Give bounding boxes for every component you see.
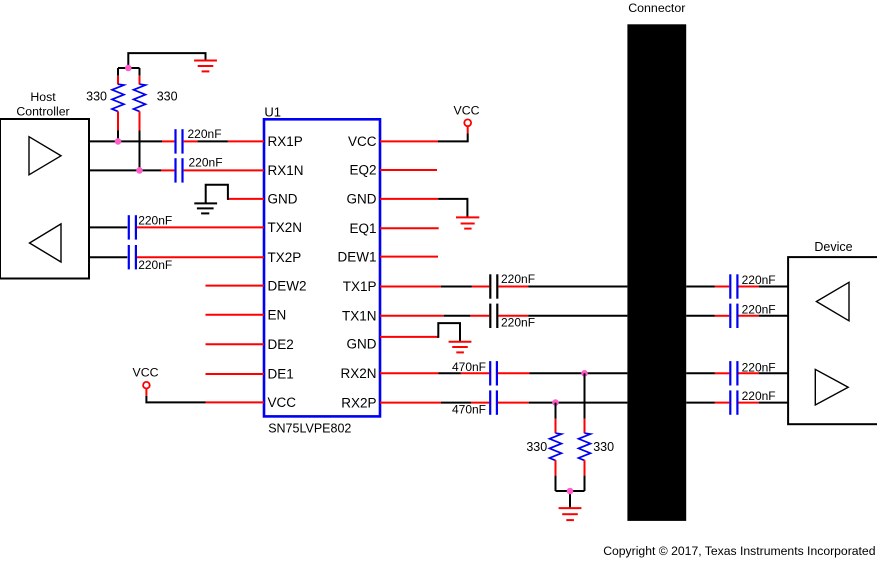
- wire TX1P: C5 to connector: [498, 286, 528, 288]
- svg-text:GND: GND: [347, 337, 377, 352]
- U1 right pin labels: [337, 134, 376, 410]
- svg-text:TX1N: TX1N: [342, 309, 377, 324]
- resistor R1 330 (upper left): [86, 68, 124, 141]
- wire VCC right pin: [380, 140, 438, 142]
- svg-text:RX1N: RX1N: [268, 163, 304, 178]
- svg-text:SN75LVPE802: SN75LVPE802: [268, 421, 351, 435]
- svg-text:RX1P: RX1P: [268, 134, 303, 149]
- svg-text:EQ1: EQ1: [349, 221, 376, 236]
- wire EQ1 stub: [380, 227, 439, 229]
- wire: R1/R2 top bar: [118, 67, 140, 69]
- wire TX2P: host to C4: [89, 256, 127, 258]
- wire RX2P: U1 to C8: [380, 402, 441, 404]
- wire RX2N: C11 to device: [739, 372, 759, 374]
- node: junction dot bottom: [567, 488, 574, 495]
- Connector (black bar): [627, 1, 686, 521]
- ground (right of U1 bottom, red): [449, 342, 472, 353]
- host buffer triangle (left-pointing): [30, 224, 62, 262]
- svg-text:DE1: DE1: [268, 367, 294, 382]
- svg-text:220nF: 220nF: [138, 213, 172, 227]
- svg-text:RX2N: RX2N: [340, 366, 376, 381]
- svg-text:VCC: VCC: [133, 366, 159, 380]
- svg-text:Copyright © 2017, Texas Instru: Copyright © 2017, Texas Instruments Inco…: [603, 544, 875, 558]
- wire RX2N: connector to C11: [686, 372, 715, 374]
- device buffer triangle (right-pointing): [815, 369, 848, 405]
- svg-text:Device: Device: [814, 240, 852, 254]
- svg-text:VCC: VCC: [454, 104, 480, 118]
- node: junction dot RX1P: [115, 138, 122, 145]
- ground (left of U1, black): [194, 203, 217, 213]
- wire EN stub: [206, 314, 265, 316]
- wire GND right pin 2 with step: [380, 336, 438, 338]
- svg-text:470nF: 470nF: [452, 402, 486, 416]
- wire: bottom node to ground: [569, 491, 571, 508]
- svg-text:TX2N: TX2N: [268, 220, 303, 235]
- svg-text:TX2P: TX2P: [268, 250, 302, 265]
- ground (top left, red): [194, 61, 217, 72]
- node: junction dot RX2P: [552, 399, 559, 406]
- svg-text:330: 330: [86, 90, 107, 104]
- svg-text:220nF: 220nF: [188, 127, 222, 141]
- capacitor C11 220nF: [730, 361, 775, 386]
- wire TX1P: C9 to device: [739, 286, 759, 288]
- svg-text:330: 330: [593, 440, 614, 454]
- wire: R3/R4 bottom bar: [556, 490, 585, 492]
- ground (bottom, red): [559, 508, 582, 520]
- capacitor C10 220nF: [730, 303, 775, 328]
- capacitor C12 220nF: [730, 389, 775, 415]
- capacitor C3 220nF: [129, 213, 172, 239]
- svg-text:220nF: 220nF: [742, 389, 776, 403]
- wire TX2N: host to C3: [89, 226, 127, 228]
- U1 left pin labels: [268, 134, 307, 410]
- wire DE1 stub: [206, 373, 265, 375]
- svg-text:DEW1: DEW1: [337, 249, 376, 264]
- svg-text:RX2P: RX2P: [341, 395, 376, 410]
- capacitor C7 470nF: [452, 360, 497, 386]
- Device box: [788, 240, 877, 424]
- wire TX1N: C10 to device: [739, 315, 759, 317]
- capacitor C1 220nF: [176, 127, 222, 154]
- svg-text:GND: GND: [268, 192, 298, 207]
- svg-text:TX1P: TX1P: [343, 279, 377, 294]
- svg-text:470nF: 470nF: [452, 360, 486, 374]
- wire GND left pin with step: [228, 198, 264, 200]
- wire TX1N: connector to C10: [686, 315, 715, 317]
- wire RX1P: C1 lead: [162, 140, 174, 142]
- resistor R4 330 (bottom right): [579, 373, 615, 491]
- device buffer triangle (left-pointing): [816, 282, 849, 321]
- node: junction dot top: [125, 65, 132, 72]
- node: junction dot RX1N: [136, 167, 143, 174]
- svg-text:DE2: DE2: [268, 337, 294, 352]
- power VCC (left bottom): [133, 366, 206, 403]
- svg-text:330: 330: [526, 440, 547, 454]
- svg-text:GND: GND: [347, 192, 377, 207]
- svg-text:DEW2: DEW2: [268, 278, 307, 293]
- wire DE2 stub: [206, 343, 265, 345]
- Host Controller box: [0, 90, 89, 279]
- wire RX2P: C12 to device: [739, 402, 759, 404]
- svg-text:U1: U1: [264, 105, 281, 120]
- svg-text:220nF: 220nF: [138, 258, 172, 272]
- svg-text:220nF: 220nF: [501, 272, 535, 286]
- node: junction dot RX2N: [581, 370, 588, 377]
- wire RX2P: connector to C12: [686, 402, 715, 404]
- op-amp U1 SN75LVPE802 box: [264, 105, 380, 436]
- svg-text:220nF: 220nF: [742, 273, 776, 287]
- power VCC (right top): [438, 104, 480, 142]
- capacitor C8 470nF: [452, 390, 497, 416]
- wire RX1N: host to C2: [89, 169, 161, 171]
- svg-text:EN: EN: [268, 307, 287, 322]
- wire EQ2 stub: [380, 169, 437, 171]
- wire RX1P: host to C1: [89, 140, 162, 142]
- wire: top node to ground: [128, 53, 205, 68]
- svg-text:220nF: 220nF: [501, 315, 535, 329]
- capacitor C9 220nF: [730, 273, 775, 299]
- capacitor C2 220nF: [176, 156, 223, 183]
- svg-text:Controller: Controller: [16, 105, 69, 119]
- wire TX2N: C3 to U1: [137, 226, 264, 228]
- capacitor C6 220nF (black): [490, 304, 535, 330]
- wire RX1N: C2 to U1: [184, 169, 264, 171]
- svg-text:220nF: 220nF: [742, 303, 776, 317]
- svg-text:Connector: Connector: [628, 1, 685, 15]
- wire TX1N: C6 to connector: [498, 315, 528, 317]
- svg-text:EQ2: EQ2: [349, 163, 376, 178]
- wire TX2P: C4 to U1: [137, 256, 264, 258]
- capacitor C4 220nF: [129, 245, 172, 272]
- host buffer triangle (right-pointing): [29, 137, 61, 175]
- ground (right of U1 top, red): [456, 217, 479, 228]
- capacitor C5 220nF (black): [490, 272, 535, 299]
- wire TX1P: U1 to C5: [380, 286, 441, 288]
- svg-text:VCC: VCC: [348, 134, 377, 149]
- svg-text:Host: Host: [30, 90, 56, 104]
- wire DEW2 stub: [206, 285, 265, 287]
- wire DEW1 stub: [380, 256, 438, 258]
- wire TX1N: U1 to C6: [380, 315, 444, 317]
- wire GND right pin: [380, 198, 438, 200]
- wire TX1P: connector to C9: [686, 286, 715, 288]
- svg-text:VCC: VCC: [268, 395, 297, 410]
- resistor R2 330 (upper right): [134, 68, 178, 170]
- wire VCC left pin: [206, 401, 265, 403]
- svg-text:220nF: 220nF: [189, 156, 223, 170]
- wire RX2N: U1 to C7: [380, 372, 439, 374]
- resistor R3 330 (bottom left): [526, 403, 561, 491]
- wire RX1P: C1 to U1: [184, 140, 198, 142]
- wire RX2N: C7 to connector: [498, 372, 530, 374]
- svg-text:330: 330: [157, 90, 178, 104]
- wire RX2P: C8 to connector: [498, 402, 529, 404]
